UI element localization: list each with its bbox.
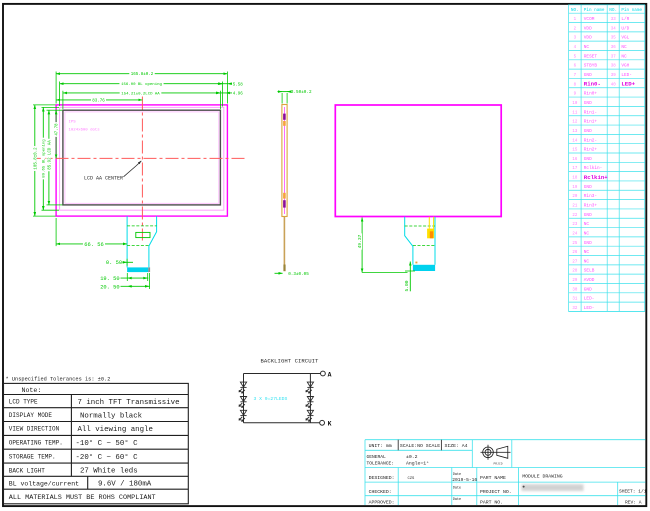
svg-text:VIEW DIRECTION: VIEW DIRECTION	[9, 426, 60, 433]
svg-text:33: 33	[611, 18, 616, 22]
svg-text:28: 28	[572, 270, 577, 274]
terminal K (cathode)	[320, 420, 325, 425]
svg-text:37: 37	[611, 55, 616, 59]
svg-text:24: 24	[572, 232, 577, 236]
svg-text:BACKLIGHT CIRCUIT: BACKLIGHT CIRCUIT	[261, 358, 320, 365]
svg-text:4.96: 4.96	[233, 93, 244, 97]
side view FPC tail	[283, 217, 285, 265]
front view LCD active area (black)	[63, 110, 221, 205]
svg-text:Pin name: Pin name	[621, 8, 642, 13]
dimension 3.50 thickness	[278, 91, 290, 93]
terminal A (anode)	[321, 371, 326, 376]
LCD AA CENTER leader arrow	[124, 161, 142, 177]
svg-text:105.8±0.2: 105.8±0.2	[34, 147, 38, 170]
extension line for 66.56	[55, 218, 57, 246]
svg-text:LED-: LED-	[584, 306, 595, 311]
svg-text:3 X 9=27LEDS: 3 X 9=27LEDS	[254, 396, 288, 402]
svg-text:40: 40	[611, 83, 616, 87]
extension lines for 165.8	[55, 72, 57, 104]
dimension 4.96 right gap	[216, 92, 233, 94]
svg-text:SCALE:NO SCALE: SCALE:NO SCALE	[400, 443, 440, 449]
svg-text:MODULE DRAWING: MODULE DRAWING	[522, 473, 562, 479]
pin assignment table grid (cyan)	[569, 5, 645, 312]
svg-text:GND: GND	[584, 101, 592, 106]
svg-text:83.76: 83.76	[92, 99, 105, 103]
dimension 85.92 LCD AA height (rotated)	[48, 110, 50, 205]
svg-text:36: 36	[611, 46, 616, 50]
svg-text:TOLERANCE:: TOLERANCE:	[367, 461, 395, 467]
svg-text:NO.: NO.	[609, 8, 617, 13]
svg-text:-20° C ~ 60° C: -20° C ~ 60° C	[76, 453, 139, 462]
svg-text:Rin0+: Rin0+	[584, 92, 598, 97]
svg-text:OPERATING TEMP.: OPERATING TEMP.	[9, 440, 63, 447]
svg-text:STORAGE TEMP.: STORAGE TEMP.	[9, 453, 56, 460]
svg-text:PART NO.: PART NO.	[480, 500, 503, 506]
side view tape block upper (orange)	[283, 121, 286, 126]
svg-text:GENERAL: GENERAL	[367, 454, 387, 460]
wire bottom rail	[244, 422, 320, 424]
svg-text:GND: GND	[584, 157, 592, 162]
svg-text:38: 38	[611, 65, 616, 69]
svg-text:Rin2+: Rin2+	[584, 148, 598, 153]
svg-text:SHEET: 1/1: SHEET: 1/1	[619, 488, 647, 494]
svg-text:27 White leds: 27 White leds	[80, 468, 138, 476]
dimension 83.76 to center	[56, 99, 142, 101]
svg-text:12: 12	[572, 121, 577, 125]
svg-text:26: 26	[572, 251, 577, 255]
svg-text:15: 15	[572, 149, 577, 153]
svg-text:5.58: 5.58	[233, 83, 244, 87]
svg-text:APPROVED:: APPROVED:	[369, 500, 395, 506]
svg-text:NC: NC	[584, 45, 590, 50]
side view tape block lower (orange)	[283, 193, 286, 199]
svg-text:LED-: LED-	[621, 73, 632, 78]
svg-text:Rin1-: Rin1-	[584, 110, 597, 115]
svg-text:39: 39	[611, 74, 616, 78]
svg-text:GND: GND	[584, 287, 592, 292]
svg-text:Date: Date	[453, 473, 461, 477]
svg-text:BL voltage/current: BL voltage/current	[9, 480, 79, 487]
svg-text:* Unspecified Tolerances is: ±: * Unspecified Tolerances is: ±0.2	[6, 376, 111, 382]
svg-text:13: 13	[572, 130, 577, 134]
svg-text:Rin2-: Rin2-	[584, 138, 597, 143]
back FPC fold line 1 (green dashed)	[405, 225, 435, 227]
svg-text:16: 16	[572, 158, 577, 162]
svg-text:21: 21	[572, 205, 577, 209]
svg-text:7 inch TFT Transmissive: 7 inch TFT Transmissive	[78, 399, 180, 407]
svg-text:Normally black: Normally black	[80, 412, 143, 420]
svg-text:22: 22	[572, 214, 577, 218]
svg-text:RESET: RESET	[584, 54, 598, 59]
extension lines for 89.65	[42, 106, 60, 108]
back FPC left edge (cyan)	[405, 217, 413, 265]
svg-text:IPS: IPS	[69, 121, 77, 125]
title block row1 dividers (black)	[397, 440, 399, 451]
back FPC connector block (yellow)	[427, 229, 434, 239]
svg-text:GND: GND	[584, 213, 592, 218]
svg-text:20: 20	[572, 195, 577, 199]
svg-text:VGH: VGH	[621, 64, 629, 69]
spec table grid	[4, 383, 189, 503]
back FPC contact lines (yellow)	[428, 217, 430, 229]
svg-text:A: A	[328, 371, 332, 378]
side view polarizer block upper (purple)	[283, 114, 286, 120]
svg-text:NC: NC	[584, 259, 590, 264]
LED D5	[306, 397, 314, 408]
svg-text:30: 30	[572, 288, 577, 292]
svg-text:PROJECT NO.: PROJECT NO.	[480, 489, 512, 495]
svg-text:35: 35	[611, 37, 616, 41]
svg-text:BACK LIGHT: BACK LIGHT	[9, 467, 45, 474]
svg-text:34: 34	[611, 27, 616, 31]
svg-text:REV: A: REV: A	[625, 499, 642, 505]
svg-text:20. 50: 20. 50	[100, 284, 119, 290]
svg-text:0.3±0.05: 0.3±0.05	[288, 272, 309, 277]
svg-text:VDD: VDD	[584, 26, 592, 31]
back FPC connector inner (orange)	[430, 231, 433, 238]
front FPC left edge (cyan)	[126, 216, 128, 267]
svg-text:SIZE: A4: SIZE: A4	[445, 443, 468, 449]
front FPC stiffener end block	[148, 267, 150, 272]
dimension 89.65 BL opening height (rotated)	[42, 107, 44, 210]
svg-text:U/D: U/D	[621, 26, 629, 31]
LED D1	[239, 382, 247, 393]
svg-text:PART NAME: PART NAME	[480, 475, 506, 481]
svg-text:31: 31	[572, 298, 577, 302]
svg-text:18: 18	[572, 177, 577, 181]
svg-text:32: 32	[572, 307, 577, 311]
svg-text:NC: NC	[621, 45, 627, 50]
svg-text:29: 29	[572, 279, 577, 283]
svg-text:3.50±0.2: 3.50±0.2	[291, 90, 312, 95]
svg-text:CZS: CZS	[408, 477, 416, 481]
svg-text:154.21±0.2LCD AA: 154.21±0.2LCD AA	[121, 92, 160, 96]
side view polarizer block lower (purple)	[283, 200, 286, 207]
back FPC right edge (cyan)	[434, 217, 436, 265]
svg-text:NO.: NO.	[571, 8, 579, 13]
wire left string	[243, 374, 245, 423]
front FPC right edge (cyan)	[149, 216, 157, 267]
redacted project number	[522, 484, 584, 491]
svg-text:LCD TYPE: LCD TYPE	[9, 399, 38, 406]
front view module outline (magenta)	[56, 105, 227, 216]
svg-text:10: 10	[572, 102, 577, 106]
svg-text:Note:: Note:	[22, 387, 42, 394]
svg-text:89.65 BL opening: 89.65 BL opening	[42, 139, 47, 178]
svg-text:Rin3-: Rin3-	[584, 194, 597, 199]
svg-text:Rclkin+: Rclkin+	[584, 174, 608, 181]
svg-text:DESIGNED:: DESIGNED:	[369, 475, 395, 481]
svg-text:19. 50: 19. 50	[100, 276, 119, 282]
back FPC stiffener bar (cyan fill)	[413, 265, 435, 271]
svg-text:All viewing angle: All viewing angle	[78, 426, 153, 434]
svg-text:2019-5-16: 2019-5-16	[452, 477, 477, 483]
svg-text:5.00: 5.00	[404, 280, 410, 291]
svg-text:VDD: VDD	[584, 36, 592, 41]
wire top rail	[244, 373, 321, 375]
svg-text:49.37: 49.37	[357, 234, 363, 248]
svg-text:Angle=1°: Angle=1°	[406, 461, 429, 467]
back FPC small mark	[415, 262, 417, 264]
front FPC stiffener bar (cyan fill)	[127, 267, 148, 272]
dimension 0.3 FPC thickness	[275, 272, 283, 274]
svg-text:85.92 LCD AA: 85.92 LCD AA	[48, 140, 52, 170]
front FPC fold line 1 (green dashed)	[127, 225, 157, 227]
dimension 5.00 (rotated)	[409, 262, 411, 292]
extension lines for overall height	[33, 104, 56, 106]
svg-text:14: 14	[572, 139, 577, 143]
svg-text:27: 27	[572, 260, 577, 264]
svg-text:Date: Date	[453, 498, 461, 502]
svg-text:PRJCD: PRJCD	[494, 462, 503, 465]
svg-text:Rin0-: Rin0-	[584, 81, 601, 88]
svg-text:23: 23	[572, 223, 577, 227]
svg-text:UNIT: mm: UNIT: mm	[369, 443, 392, 449]
extension lines for 85.92	[47, 109, 63, 111]
svg-text:NC: NC	[584, 250, 590, 255]
third-angle projection symbol	[481, 445, 511, 460]
svg-text:-10° C ~ 50° C: -10° C ~ 50° C	[76, 439, 139, 448]
svg-text:LED+: LED+	[621, 81, 635, 88]
side view cell line (magenta)	[284, 107, 286, 214]
side view body outline (tan)	[282, 105, 287, 217]
svg-text:LED-: LED-	[584, 297, 595, 302]
svg-text:Pin name: Pin name	[584, 8, 605, 13]
vertical centerline	[141, 97, 143, 241]
svg-text:Rin3+: Rin3+	[584, 204, 598, 209]
svg-text:47.78: 47.78	[56, 123, 60, 136]
svg-text:DISPLAY MODE: DISPLAY MODE	[9, 412, 53, 419]
dimension 156.00 BL opening	[60, 83, 223, 85]
svg-text:GND: GND	[584, 185, 592, 190]
svg-text:25: 25	[572, 242, 577, 246]
svg-text:165.8±0.2: 165.8±0.2	[131, 73, 154, 77]
svg-text:17: 17	[572, 167, 577, 171]
svg-text:Date: Date	[453, 486, 461, 490]
svg-text:VCOM: VCOM	[584, 17, 595, 22]
svg-text:±0.2: ±0.2	[406, 454, 418, 460]
horizontal centerline	[34, 157, 247, 159]
LED D4	[306, 382, 314, 393]
LED D3	[239, 410, 247, 421]
front view BL opening outline (pink)	[60, 107, 224, 210]
svg-text:AVDD: AVDD	[584, 278, 595, 283]
dimension 49.37 (rotated)	[361, 218, 363, 273]
svg-text:NC: NC	[584, 231, 590, 236]
side view FPC tail end block	[283, 265, 285, 272]
svg-text:SELB: SELB	[584, 269, 595, 274]
front FPC connector outline (green)	[136, 232, 150, 237]
svg-text:156.00 BL opening: 156.00 BL opening	[121, 82, 162, 87]
LED D6	[306, 410, 314, 421]
dimension 66.56 FPC offset	[56, 243, 127, 245]
svg-text:GND: GND	[584, 241, 592, 246]
wire right string	[309, 374, 311, 423]
svg-text:GND: GND	[584, 129, 592, 134]
svg-text:Rin1+: Rin1+	[584, 120, 598, 125]
front view inner AA line (pink)	[65, 112, 219, 203]
extension lines for 156.00	[59, 82, 61, 107]
svg-text:19: 19	[572, 186, 577, 190]
back view outline (magenta)	[335, 105, 501, 217]
svg-text:NC: NC	[584, 222, 590, 227]
svg-text:66. 56: 66. 56	[84, 242, 103, 248]
svg-text:Rclkin-: Rclkin-	[584, 166, 602, 171]
dimension 105.8 overall height (rotated)	[34, 105, 36, 216]
svg-text:CHECKED:: CHECKED:	[369, 489, 392, 495]
svg-text:NC: NC	[621, 54, 627, 59]
dimension 154.21 LCD AA width	[63, 92, 221, 94]
title block grid (cyan)	[365, 440, 645, 505]
dimension 47.78 to center (rotated)	[55, 110, 57, 158]
svg-text:1024x600 dots: 1024x600 dots	[69, 128, 101, 133]
svg-text:K: K	[328, 421, 332, 428]
dimension 165.8 overall width	[56, 73, 227, 75]
svg-text:GND: GND	[584, 73, 592, 78]
LED D2	[239, 397, 247, 408]
extension lines for 154.21	[62, 91, 64, 109]
svg-text:0. 50: 0. 50	[106, 260, 122, 266]
svg-text:LCD AA CENTER: LCD AA CENTER	[84, 175, 123, 181]
svg-text:L/R: L/R	[621, 17, 629, 22]
svg-text:11: 11	[572, 111, 577, 115]
svg-text:STBYB: STBYB	[584, 64, 598, 69]
svg-text:ALL MATERIALS MUST BE ROHS COM: ALL MATERIALS MUST BE ROHS COMPLIANT	[9, 494, 156, 502]
dimension 5.58 right gap	[218, 83, 233, 85]
svg-text:9.6V / 180mA: 9.6V / 180mA	[98, 481, 152, 489]
back FPC fold line 2 (green dashed)	[413, 244, 435, 246]
svg-text:VGL: VGL	[621, 36, 629, 41]
front FPC fold line 2 (green dashed)	[127, 244, 149, 246]
